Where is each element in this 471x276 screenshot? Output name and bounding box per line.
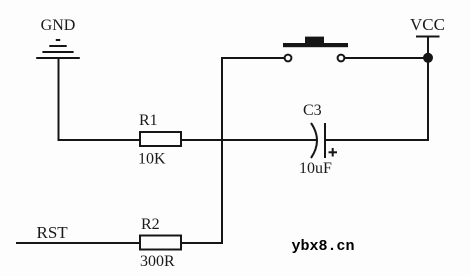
power VCC bar — [416, 36, 440, 38]
resistor R1 — [140, 132, 181, 146]
switch S1 push button — [283, 37, 348, 62]
svg-text:10K: 10K — [138, 151, 166, 168]
wire middle vertical — [221, 57, 223, 244]
svg-text:300R: 300R — [140, 253, 175, 270]
svg-text:R1: R1 — [139, 112, 158, 129]
wire capacitor to VCC rail — [325, 139, 429, 141]
ground GND — [36, 40, 80, 58]
wire button left terminal — [222, 57, 285, 59]
capacitor C3 — [311, 123, 337, 158]
svg-text:RST: RST — [37, 223, 69, 242]
wire VCC vertical — [427, 37, 429, 142]
svg-text:R2: R2 — [141, 216, 160, 233]
wire main rail left segment — [58, 139, 141, 141]
svg-text:GND: GND — [41, 17, 76, 34]
wire GND stem — [58, 58, 60, 141]
resistor R2 — [140, 236, 181, 250]
wire RST to R2 — [16, 242, 140, 244]
svg-text:VCC: VCC — [410, 15, 445, 34]
node junction at VCC — [423, 53, 433, 63]
svg-text:C3: C3 — [303, 102, 322, 119]
wire R1 to capacitor — [181, 139, 316, 141]
wire R2 to middle vertical — [181, 242, 223, 244]
svg-text:ybx8.cn: ybx8.cn — [292, 238, 355, 255]
svg-text:10uF: 10uF — [299, 160, 332, 177]
wire button right terminal to VCC — [345, 57, 429, 59]
